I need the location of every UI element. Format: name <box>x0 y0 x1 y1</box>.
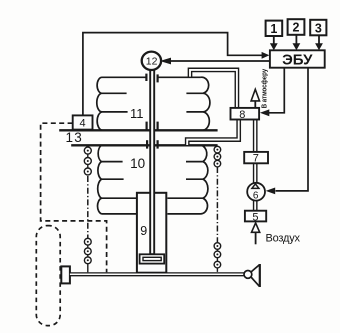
sensor boxes 1 2 3 <box>266 21 283 36</box>
air spring 10 left bellows <box>98 145 137 214</box>
svg-text:6: 6 <box>253 190 259 201</box>
pipe compressor 6 to filter 5 <box>253 200 258 211</box>
svg-text:Воздух: Воздух <box>266 232 301 244</box>
svg-text:ЭБУ: ЭБУ <box>282 51 313 68</box>
sensor box 4 <box>73 115 93 129</box>
svg-text:4: 4 <box>80 117 86 129</box>
pipe valve 8 to dryer 7 <box>253 119 258 152</box>
hub block <box>61 266 70 283</box>
wire ECU to actuator 12 <box>171 60 270 62</box>
body line A <box>59 129 217 131</box>
svg-text:13: 13 <box>65 130 82 145</box>
stabilizer cone <box>251 265 260 272</box>
filter box 5 <box>245 211 266 222</box>
triangle inside compressor 6 <box>252 184 259 189</box>
compressor circle 6 <box>247 183 265 201</box>
svg-text:5: 5 <box>252 211 258 223</box>
svg-text:11: 11 <box>130 106 144 121</box>
vent open triangle <box>251 89 259 101</box>
svg-text:7: 7 <box>253 153 259 165</box>
shock absorber 9 body <box>137 193 166 273</box>
air spring 11 left bellows <box>97 77 146 130</box>
body line B <box>71 144 217 146</box>
dryer box 7 <box>244 152 268 163</box>
air spring 11 right bellows <box>158 77 210 130</box>
spring plate ticks <box>146 74 157 149</box>
air spring 10 right bellows <box>167 145 208 214</box>
actuator circle 12 <box>142 52 161 70</box>
wheel dashed tyre <box>36 226 60 326</box>
arrow into circle 12 <box>160 58 171 65</box>
pipe dryer 7 to compressor 6 <box>253 163 258 183</box>
pipe spring11 to valve 8 <box>190 70 237 108</box>
wire ECU to compressor 6 <box>276 68 309 191</box>
arrow into ECU from sensor 4 <box>262 52 270 59</box>
pipe valve 8 to spring10 <box>187 119 239 146</box>
stabilizer circle at axle end <box>244 271 252 279</box>
valve unit box 8 <box>231 108 260 120</box>
wire body4 to ECU <box>83 33 263 116</box>
svg-text:12: 12 <box>146 55 158 67</box>
right sensor chain <box>216 146 218 272</box>
intake open triangle below box 5 <box>252 223 260 232</box>
svg-text:3: 3 <box>315 21 322 35</box>
arrows from sensors 1 2 3 to ECU <box>274 35 319 45</box>
wire ECU to valve unit 8 <box>269 68 285 113</box>
svg-text:1: 1 <box>270 22 277 36</box>
svg-text:9: 9 <box>140 224 147 238</box>
dashed linkage from sensor 4 to axle <box>41 123 107 272</box>
arrow into box 8 <box>260 109 269 116</box>
svg-text:10: 10 <box>130 156 145 171</box>
svg-text:В атмосферу: В атмосферу <box>259 69 268 109</box>
svg-text:2: 2 <box>293 21 300 35</box>
axle double line <box>70 272 245 276</box>
stabilizer bar <box>259 264 261 287</box>
svg-text:8: 8 <box>239 109 245 121</box>
arrow into circle 6 <box>266 188 276 195</box>
damper rod / shaft <box>149 69 155 254</box>
vent stem above box 8 <box>254 101 256 109</box>
left sensor chain <box>87 147 89 273</box>
piston in shock absorber <box>140 254 165 263</box>
ECU box <box>270 50 325 67</box>
intake stem <box>255 232 257 244</box>
